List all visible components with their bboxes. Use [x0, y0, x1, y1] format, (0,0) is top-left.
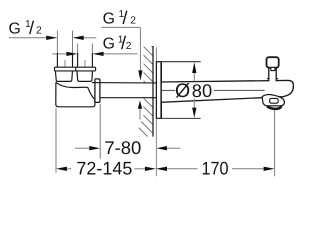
union nut split line — [75, 67, 77, 71]
label G1/2 top-centre leader — [102, 26, 141, 28]
G1/2 wall connection vertical dimension — [139, 27, 141, 70]
wall union collar — [95, 79, 100, 103]
wall mounting face line — [152, 46, 154, 137]
svg-text:80: 80 — [192, 80, 212, 101]
knob notch — [271, 68, 275, 71]
inlet pipe stubs — [57, 53, 92, 67]
svg-text:/: / — [29, 17, 35, 38]
7-80 extension line — [99, 104, 101, 159]
connection pipe through wall — [92, 82, 156, 84]
dimension G1/2 no.2 line — [52, 53, 137, 55]
svg-text:72-145: 72-145 — [76, 157, 132, 178]
union nut flange — [55, 67, 96, 71]
elbow body — [56, 82, 95, 106]
finished wall plane / extension line — [155, 47, 157, 176]
label G1/2 mid — [103, 32, 132, 53]
spout tube — [161, 80, 293, 102]
label G1/2 top-left — [9, 17, 43, 38]
outlet mousetrap dark lip — [267, 106, 282, 109]
knob base ticks — [267, 78, 269, 80]
svg-text:2: 2 — [126, 41, 132, 52]
svg-text:2: 2 — [36, 26, 42, 37]
svg-text:G: G — [9, 20, 21, 37]
dimension G1/2 no.1 arrowheads — [46, 36, 57, 40]
72-145 extension line — [55, 108, 57, 173]
svg-text:7-80: 7-80 — [104, 137, 141, 158]
svg-text:2: 2 — [130, 16, 136, 27]
hatch halo around G1/2 wall arrows — [137, 46, 143, 82]
svg-text:G: G — [103, 36, 115, 53]
union sleeve right position — [77, 71, 92, 82]
svg-text:170: 170 — [202, 157, 229, 178]
inlet stub extension lines — [57, 31, 92, 54]
dimension 72-145 — [67, 168, 145, 170]
dimension 170 — [167, 168, 264, 170]
label G1/2 top-centre — [103, 7, 137, 28]
diameter 80 dimension — [161, 89, 264, 91]
stub centre marks — [65, 60, 85, 67]
dimension 7-80 — [75, 147, 180, 149]
svg-text:G: G — [103, 10, 115, 27]
dimension G1/2 no.1 line — [9, 37, 97, 39]
spout outlet — [262, 95, 284, 106]
escutcheon edge extension lines — [156, 61, 200, 63]
svg-text:/: / — [122, 7, 128, 28]
flow control knob neck — [269, 68, 276, 82]
170 extension line at outlet centre — [274, 110, 276, 176]
svg-text:Ø: Ø — [175, 80, 190, 102]
union sleeve left position — [55, 71, 72, 82]
wall section hatch — [139, 33, 153, 151]
outlet inner lip — [270, 98, 279, 103]
escutcheon — [156, 62, 161, 119]
flow control knob head — [267, 57, 279, 67]
dimension G1/2 no.2 arrowheads — [66, 52, 77, 56]
